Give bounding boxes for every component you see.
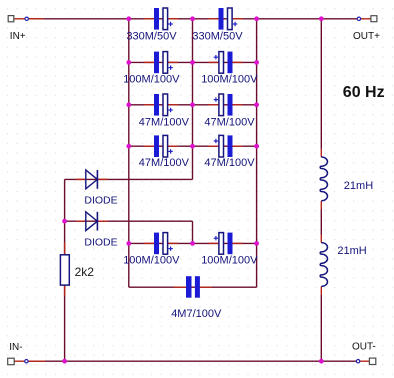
svg-text:330M/50V: 330M/50V — [126, 31, 177, 43]
wire middle rail lower — [192, 221, 194, 243]
svg-text:330M/50V: 330M/50V — [192, 31, 243, 43]
terminal OUT+ — [357, 16, 377, 22]
wire diode1 row horizontal — [65, 178, 193, 180]
svg-text:DIODE: DIODE — [84, 237, 117, 249]
node row2 mid — [190, 60, 195, 65]
node row2 left — [126, 60, 131, 65]
node row5 left — [126, 241, 131, 246]
terminal IN- — [8, 358, 45, 365]
svg-text:47M/100V: 47M/100V — [204, 157, 255, 169]
resistor R1 2k2 — [60, 242, 69, 296]
node row3 left — [126, 102, 131, 107]
svg-text:21mH: 21mH — [337, 245, 366, 257]
svg-text:47M/100V: 47M/100V — [204, 117, 255, 129]
capacitor C9 100M/100V — [144, 233, 178, 255]
wire inductor branch upper — [320, 19, 322, 149]
node row4 left — [126, 144, 131, 149]
wire diode2 row horizontal — [65, 220, 193, 222]
diode D1 — [76, 170, 108, 189]
wire left branch vertical — [64, 179, 66, 361]
wire row3 horizontal — [129, 104, 257, 106]
node row4 right — [254, 144, 259, 149]
wire top net IN+/OUT+ — [28, 18, 357, 20]
node row3 mid — [190, 102, 195, 107]
node row2 right — [254, 60, 259, 65]
wire bottom cap row horizontal — [129, 286, 257, 288]
svg-text:4M7/100V: 4M7/100V — [171, 308, 222, 320]
capacitor C3 100M/100V — [144, 52, 178, 74]
node row3 right — [254, 102, 259, 107]
svg-text:100M/100V: 100M/100V — [123, 73, 180, 85]
inductor L1 21mH — [320, 149, 327, 210]
terminal OUT- — [356, 358, 375, 364]
node top-right rail — [254, 16, 259, 21]
node diode2 anode — [62, 219, 67, 224]
node top-mid rail — [190, 16, 195, 21]
diode D2 — [76, 212, 108, 231]
svg-text:100M/100V: 100M/100V — [201, 254, 258, 266]
wire row5 horizontal — [129, 242, 257, 244]
wire inductor branch middle — [320, 210, 322, 235]
capacitor C6 47M/100V (mirrored) — [209, 94, 243, 116]
svg-text:IN-: IN- — [9, 342, 22, 353]
capacitor C8 47M/100V (mirrored) — [209, 135, 243, 157]
wire bottom net IN-/OUT- — [28, 360, 356, 362]
svg-text:47M/100V: 47M/100V — [139, 157, 190, 169]
capacitor C4 100M/100V (mirrored) — [209, 52, 243, 74]
svg-text:21mH: 21mH — [344, 180, 373, 192]
capacitor C10 100M/100V (mirrored) — [209, 233, 243, 255]
wire left rail — [128, 19, 130, 287]
svg-text:100M/100V: 100M/100V — [123, 254, 180, 266]
svg-text:OUT-: OUT- — [352, 341, 376, 352]
node top inductor branch — [319, 16, 324, 21]
svg-text:OUT+: OUT+ — [353, 31, 380, 42]
wire middle rail upper — [192, 19, 194, 180]
svg-text:60 Hz: 60 Hz — [343, 84, 385, 101]
capacitor C2 330M/50V — [209, 8, 243, 30]
capacitor C1 330M/50V — [144, 8, 178, 30]
capacitor C5 47M/100V — [144, 94, 178, 116]
svg-text:2k2: 2k2 — [75, 265, 95, 279]
wire right rail — [256, 19, 258, 287]
node row4 mid — [190, 144, 195, 149]
svg-text:DIODE: DIODE — [84, 194, 117, 206]
capacitor C11 4M7/100V — [174, 276, 212, 298]
node bottom left branch — [62, 359, 67, 364]
svg-text:47M/100V: 47M/100V — [139, 117, 190, 129]
svg-text:100M/100V: 100M/100V — [201, 73, 258, 85]
node row5 mid — [190, 241, 195, 246]
terminal IN+ — [8, 16, 43, 22]
inductor L2 21mH — [320, 235, 327, 296]
wire row4 horizontal — [129, 145, 257, 147]
node bottom inductor branch — [319, 359, 324, 364]
node top-left rail — [126, 16, 131, 21]
node row5 right — [254, 241, 259, 246]
wire inductor branch lower — [320, 295, 322, 361]
capacitor C7 47M/100V — [144, 135, 178, 157]
wire row2 horizontal — [129, 61, 257, 63]
svg-text:IN+: IN+ — [10, 31, 26, 42]
